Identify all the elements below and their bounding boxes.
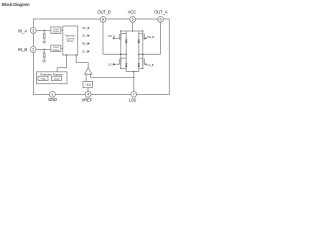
svg-text:Shifter: Shifter (52, 30, 59, 34)
svg-text:5: 5 (132, 18, 134, 22)
svg-text:3: 3 (32, 29, 34, 33)
svg-text:LG_B: LG_B (82, 50, 89, 53)
svg-text:OCP: OCP (54, 77, 60, 81)
svg-text:1: 1 (52, 93, 54, 97)
svg-text:Driver: Driver (67, 39, 74, 43)
svg-text:4: 4 (87, 93, 89, 97)
svg-text:Protection Features: Protection Features (40, 72, 63, 76)
svg-text:LG_A: LG_A (108, 64, 115, 67)
svg-text:HG_B: HG_B (147, 36, 154, 39)
svg-text:LSS: LSS (129, 97, 137, 102)
svg-text:VREF: VREF (82, 97, 93, 102)
svg-text:HG_A: HG_A (82, 27, 89, 30)
svg-text:HG_A: HG_A (108, 35, 115, 38)
svg-text:Shifter: Shifter (52, 48, 59, 52)
svg-text:÷10: ÷10 (85, 83, 91, 87)
svg-text:7: 7 (133, 93, 135, 97)
svg-text:HG_B: HG_B (82, 43, 89, 46)
svg-text:IN_A: IN_A (18, 28, 27, 33)
svg-text:GND: GND (48, 97, 57, 102)
svg-text:6: 6 (160, 18, 162, 22)
svg-text:TSD: TSD (40, 77, 45, 81)
svg-text:8: 8 (102, 18, 104, 22)
svg-text:Block Diagram: Block Diagram (2, 2, 30, 7)
svg-text:LG_B: LG_B (147, 64, 154, 67)
svg-text:LG_A: LG_A (82, 35, 89, 38)
svg-text:IN_B: IN_B (18, 47, 27, 52)
svg-text:OUT_A: OUT_A (154, 10, 168, 15)
svg-text:2: 2 (32, 48, 34, 52)
svg-text:OUT_B: OUT_B (97, 10, 111, 15)
svg-text:VCC: VCC (128, 10, 137, 15)
